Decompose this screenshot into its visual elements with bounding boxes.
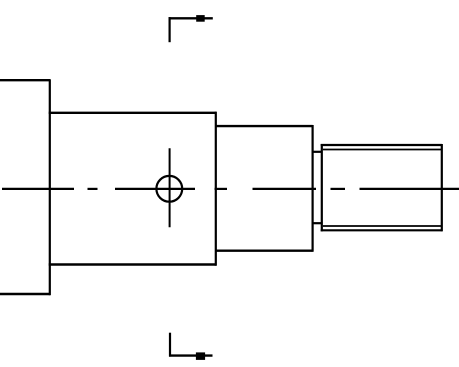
threaded end: left edge xyxy=(321,144,323,231)
main centerline dash 6 xyxy=(331,188,346,190)
main centerline dash 3 xyxy=(115,188,195,190)
neck step top xyxy=(312,151,322,153)
section marker top: vertical leg xyxy=(169,17,171,42)
threaded end: minor diameter bottom xyxy=(323,225,442,227)
section marker top: arrow block xyxy=(196,15,205,22)
shaft section 2: bottom edge xyxy=(49,263,216,265)
shaft section 1 (left, clipped): top edge xyxy=(0,79,50,81)
shaft section 2 (large block): top edge xyxy=(49,112,216,114)
shaft section 1: right edge / shoulder xyxy=(49,79,51,295)
shaft section 1: bottom edge xyxy=(0,293,50,295)
section marker bottom: vertical leg xyxy=(169,333,171,357)
threaded end: major diameter bottom xyxy=(321,229,442,231)
threaded end: major diameter top xyxy=(321,144,442,146)
hole vertical centerline xyxy=(169,148,171,227)
main centerline dash 5 xyxy=(253,188,317,190)
shaft section 3: right edge / shoulder xyxy=(312,125,314,252)
threaded end: minor diameter top xyxy=(323,149,442,151)
main centerline dash 1 xyxy=(2,188,74,190)
section marker bottom: arrow block xyxy=(196,352,205,360)
hole circle xyxy=(156,176,182,202)
main centerline dash 2 xyxy=(88,188,98,190)
section marker top: horizontal leg xyxy=(169,17,213,19)
threaded end: right edge xyxy=(441,144,443,231)
main centerline dash 4 xyxy=(215,188,228,190)
shaft section 3 (medium block): top edge xyxy=(215,125,313,127)
main centerline dash 7 xyxy=(360,188,459,190)
shaft section 3: bottom edge xyxy=(215,249,313,251)
neck step bottom xyxy=(312,222,322,224)
section marker bottom: horizontal leg xyxy=(169,354,213,356)
shaft section 2: right edge / shoulder xyxy=(215,112,217,266)
